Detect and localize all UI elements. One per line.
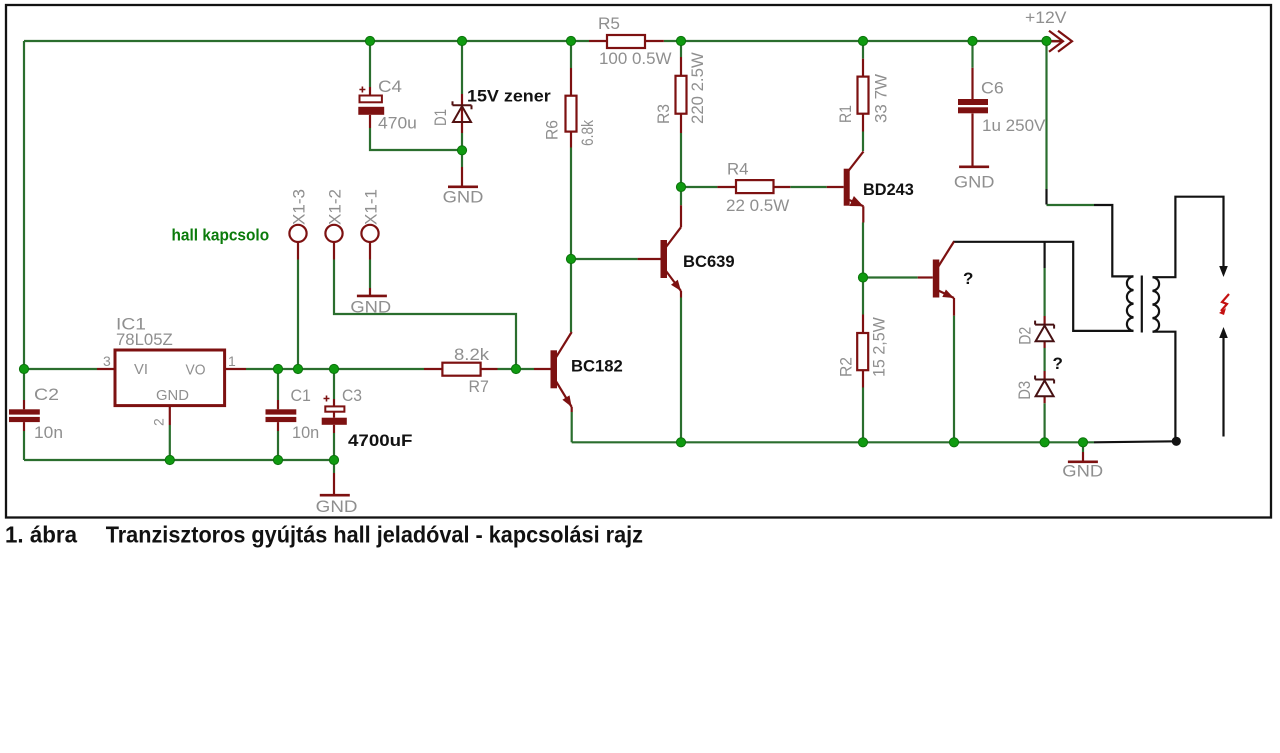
svg-text:GND: GND xyxy=(350,298,391,317)
wire lead C6 top xyxy=(971,68,973,99)
wire lead C4 top xyxy=(369,87,371,95)
wire lead R2 top xyxy=(862,315,864,334)
ground symbol (D1) xyxy=(448,186,478,189)
svg-text:R3: R3 xyxy=(654,104,673,124)
ground symbol (C6) xyxy=(959,166,989,169)
svg-text:X1-1: X1-1 xyxy=(362,189,381,225)
junction Q?/bottom rail xyxy=(949,438,958,447)
svg-text:R1: R1 xyxy=(836,105,855,123)
svg-text:C3: C3 xyxy=(342,386,362,405)
svg-text:BC182: BC182 xyxy=(571,357,623,376)
wire lead C4 bottom xyxy=(369,115,371,128)
border frame xyxy=(6,5,1271,518)
wire lead R5 right xyxy=(645,40,664,42)
wire lead C2 top xyxy=(23,400,25,409)
svg-text:6.8k: 6.8k xyxy=(578,120,597,146)
wire BC639 base node horizontal xyxy=(571,258,638,260)
wire lead C3 GND stub xyxy=(333,473,335,495)
wire lead C2 bottom xyxy=(23,422,25,431)
wire Q? collector to primary xyxy=(953,242,1134,331)
wire lead R1 bottom xyxy=(862,114,864,132)
wire R3 to R4 node xyxy=(680,133,682,187)
wire +12V top rail left segment xyxy=(24,40,589,42)
spark gap lower electrode arrow xyxy=(1219,327,1228,338)
wire black branch to D2 string xyxy=(1043,242,1045,268)
wire primary feed black segment xyxy=(1094,205,1134,276)
wire lead BC182 base xyxy=(534,368,551,370)
wire lead D3 bottom xyxy=(1043,396,1045,403)
transformer T1 core xyxy=(1141,276,1143,333)
svg-text:470u: 470u xyxy=(378,114,417,133)
svg-text:GND: GND xyxy=(156,387,189,404)
wire lead C6 bottom to GND xyxy=(971,114,973,167)
svg-text:220 2.5W: 220 2.5W xyxy=(688,52,707,124)
zener diode D2 xyxy=(1035,321,1054,342)
wire lead C3 bottom xyxy=(333,425,335,433)
transistor Q1 BC182 base bar xyxy=(551,350,558,388)
wire rail to R1 xyxy=(862,41,864,59)
wire C1 branch lower xyxy=(277,431,279,460)
wire node 5V: junction to IC1 VI xyxy=(24,368,97,370)
svg-text:?: ? xyxy=(963,269,973,288)
svg-text:BD243: BD243 xyxy=(863,180,914,199)
svg-text:Tranzisztoros gyújtás hall jel: Tranzisztoros gyújtás hall jeladóval - k… xyxy=(106,522,643,548)
zener diode D1 xyxy=(453,101,472,122)
wire bottom-left ground rail xyxy=(24,459,334,461)
wire R6 to BC639 base node xyxy=(570,148,572,260)
wire R4 node to BC639 collector xyxy=(680,187,682,205)
svg-text:R5: R5 xyxy=(598,14,620,33)
wire X1-1 to GND xyxy=(369,260,371,289)
wire BD243 emitter node xyxy=(862,223,864,278)
wire X1-3 to main node xyxy=(297,260,299,370)
junction D3/bottom rail xyxy=(1040,438,1049,447)
svg-text:VI: VI xyxy=(134,361,148,378)
wire lead R4 left xyxy=(717,186,736,188)
wire BD243 emitter node to Q? base xyxy=(863,276,918,278)
transistor Q2 BC639 emitter lead with arrow xyxy=(666,271,681,291)
junction BD243 emitter/R2/Q? base xyxy=(858,273,867,282)
junction +12V takeoff xyxy=(1042,36,1051,45)
wire lead D3 top xyxy=(1043,371,1045,380)
junction C3/5V xyxy=(329,364,338,373)
wire rail to R6 xyxy=(570,41,572,68)
svg-text:BC639: BC639 xyxy=(683,252,735,271)
wire bottom ground rail xyxy=(572,441,1094,443)
resistor R1 body xyxy=(858,77,869,114)
capacitor C3 plus sign xyxy=(324,396,330,402)
spark symbol (red) xyxy=(1221,294,1229,311)
spark gap upper electrode arrow xyxy=(1219,266,1228,277)
wire lead D2 top xyxy=(1043,316,1045,325)
capacitor C2 plates xyxy=(9,409,40,414)
wire lead BD243 base xyxy=(827,186,844,188)
junction BC639/bottom rail xyxy=(676,438,685,447)
wire R4 to BD243 base xyxy=(790,186,826,188)
svg-text:VO: VO xyxy=(186,362,206,379)
wire C3 branch upper xyxy=(333,369,335,399)
svg-text:2: 2 xyxy=(151,418,167,426)
junction D1/rail xyxy=(457,36,466,45)
transistor Q3 BD243 collector lead xyxy=(849,151,864,170)
wire lead right GND stub xyxy=(1082,452,1084,462)
transistor Q1 BC182 collector lead xyxy=(556,332,572,357)
wire left rail below C2 xyxy=(23,431,25,460)
wire R1 to BD243 collector xyxy=(862,132,864,152)
capacitor C6 plates xyxy=(958,99,988,105)
wire lead X1-2 pin xyxy=(333,242,335,259)
junction R7/X1-2/base xyxy=(511,364,520,373)
svg-text:22 0.5W: 22 0.5W xyxy=(726,196,789,215)
resistor R5 body xyxy=(607,35,645,48)
svg-text:4700uF: 4700uF xyxy=(348,431,413,450)
wire IC1 VO to R7 xyxy=(246,368,424,370)
svg-text:R7: R7 xyxy=(469,377,489,396)
capacitor C4 (electrolytic) xyxy=(360,96,382,103)
svg-text:15V zener: 15V zener xyxy=(467,87,551,106)
wire lead IC1 pin2 xyxy=(169,406,171,425)
wire Q? emitter to bottom rail xyxy=(953,316,955,443)
svg-text:78L05Z: 78L05Z xyxy=(116,330,173,349)
wire +12V to transformer primary vertical xyxy=(1045,41,1047,189)
svg-text:100 0.5W: 100 0.5W xyxy=(599,49,672,68)
wire lead R3 top xyxy=(680,57,682,76)
svg-text:D2: D2 xyxy=(1016,327,1035,345)
wire lead BD243 emitter xyxy=(862,206,864,222)
svg-text:GND: GND xyxy=(443,187,484,206)
wire IC1 pin2 lower xyxy=(169,425,171,460)
resistor R2 body xyxy=(857,333,868,370)
transistor Q3 BD243 emitter lead with arrow xyxy=(849,200,864,207)
wire lead R1 top xyxy=(862,59,864,77)
junction C1/gnd xyxy=(273,455,282,464)
wire C1 branch upper xyxy=(277,369,279,400)
svg-text:10n: 10n xyxy=(34,423,63,442)
svg-text:D3: D3 xyxy=(1015,381,1034,400)
wire bottom rail black segment xyxy=(1094,441,1176,442)
svg-text:?: ? xyxy=(1053,354,1063,373)
transistor Q1 BC182 emitter lead with arrow xyxy=(556,381,572,407)
transformer T1 primary winding xyxy=(1127,276,1134,331)
wire lead X1-1 pin xyxy=(369,242,371,259)
+12V supply arrow xyxy=(1049,31,1072,52)
svg-text:hall kapcsolo: hall kapcsolo xyxy=(172,225,270,244)
connector pad X1-1 xyxy=(361,225,378,242)
wire spark gap lower electrode xyxy=(1222,334,1224,437)
junction X1-3/5V xyxy=(293,364,302,373)
wire lead C3 top xyxy=(333,399,335,406)
svg-text:+12V: +12V xyxy=(1025,8,1067,27)
wire node to R2 xyxy=(862,278,864,315)
transistor Q2 BC639 collector lead xyxy=(666,227,681,247)
wire lead IC1 pin1 xyxy=(225,368,246,370)
wire lead X1-1 GND stub xyxy=(369,288,371,296)
junction GND/bottom rail xyxy=(1078,438,1087,447)
junction R1/rail xyxy=(858,36,867,45)
junction R6/BC639 base xyxy=(566,254,575,263)
junction R5-right/R3 xyxy=(676,36,685,45)
svg-text:C2: C2 xyxy=(34,385,59,404)
resistor R4 body xyxy=(736,180,774,193)
junction C3/gnd xyxy=(329,455,338,464)
wire lead R3 bottom xyxy=(680,114,682,133)
wire left vertical rail xyxy=(23,41,25,400)
wire D3 to bottom rail xyxy=(1043,403,1045,442)
wire lead R5 left xyxy=(589,40,607,42)
resistor R3 body xyxy=(676,76,687,114)
wire D2 top xyxy=(1043,268,1045,316)
junction R2/bottom rail xyxy=(858,438,867,447)
svg-text:GND: GND xyxy=(954,172,995,191)
wire lead Q? emitter xyxy=(953,298,955,316)
junction C1/5V xyxy=(273,364,282,373)
wire lead R6 bottom xyxy=(570,132,572,148)
svg-text:R2: R2 xyxy=(837,357,856,377)
svg-text:X1-3: X1-3 xyxy=(290,189,309,225)
transformer T1 secondary winding xyxy=(1153,277,1160,332)
transistor Q2 BC639 base bar xyxy=(661,240,668,278)
junction R5-left xyxy=(566,36,575,45)
wire lead BC182 emitter stub xyxy=(571,407,573,412)
wire D2-D3 link xyxy=(1043,348,1045,371)
capacitor C3 (electrolytic) xyxy=(325,406,344,411)
wire BC639 emitter to bottom rail xyxy=(680,298,682,443)
wire rail to C6 xyxy=(971,41,973,68)
ground symbol (X1-1) xyxy=(357,295,387,298)
connector pad X1-2 xyxy=(325,225,342,242)
transistor Q4 ? base bar xyxy=(933,260,940,298)
zener diode D3 xyxy=(1035,376,1054,397)
wire primary feed horizontal xyxy=(1047,204,1095,206)
transistor Q4 ? emitter lead with arrow xyxy=(938,291,954,299)
wire lead R6 top xyxy=(570,68,572,96)
junction IC1 pin2/gnd xyxy=(165,455,174,464)
wire lead X1-3 pin xyxy=(297,242,299,259)
wire D1 anode to GND node xyxy=(461,133,463,167)
resistor R7 body xyxy=(442,363,480,376)
svg-text:1u 250V: 1u 250V xyxy=(982,116,1046,135)
svg-text:GND: GND xyxy=(316,497,358,516)
op-amp/regulator IC1 78L05Z body xyxy=(115,350,225,406)
transistor Q4 ? collector lead xyxy=(938,242,954,267)
svg-text:8.2k: 8.2k xyxy=(454,345,490,364)
junction C6/rail xyxy=(968,36,977,45)
junction C4/rail xyxy=(365,36,374,45)
wire lead C1 top xyxy=(277,400,279,409)
wire lead Q? base xyxy=(918,276,933,278)
junction secondary/bottom rail (black) xyxy=(1172,437,1181,446)
transistor Q3 BD243 base bar xyxy=(844,169,850,206)
wire lead C3 mid xyxy=(333,412,335,418)
junction R3/R4 xyxy=(676,182,685,191)
wire R7 to BC182 base xyxy=(498,368,535,370)
wire X1-2 elbow to R7 node xyxy=(334,260,516,370)
connector pad X1-3 xyxy=(289,225,306,242)
wire rail to R3 xyxy=(680,41,682,57)
wire lead R7 right xyxy=(481,368,498,370)
wire C4 bottom elbow to D1 xyxy=(370,128,461,150)
wire lead D1 to GND xyxy=(461,167,463,187)
wire lead D1 vertical xyxy=(461,94,463,133)
wire R4 node horizontal xyxy=(681,186,717,188)
svg-text:R6: R6 xyxy=(543,120,562,140)
wire +12V top rail right segment xyxy=(664,40,1063,42)
wire lead BC639 emitter xyxy=(680,291,682,298)
wire D1 cathode from rail xyxy=(461,41,463,94)
wire C3 to GND stub xyxy=(333,460,335,473)
wire lead IC1 pin3 xyxy=(97,368,115,370)
svg-text:C4: C4 xyxy=(378,77,402,96)
ground symbol (bottom rail) xyxy=(1068,460,1098,463)
wire R2 to bottom rail xyxy=(862,388,864,443)
wire black overdraw at +12V elbow xyxy=(1045,189,1047,205)
wire lead R4 right xyxy=(774,186,791,188)
svg-text:D1: D1 xyxy=(431,109,450,126)
svg-text:C6: C6 xyxy=(981,79,1004,98)
wire lead BC639 collector xyxy=(680,205,682,227)
wire lead D2 bottom xyxy=(1043,341,1045,348)
wire lead R2 bottom xyxy=(862,370,864,387)
wire node to BC182 collector xyxy=(570,259,572,332)
svg-text:1: 1 xyxy=(228,353,236,369)
junction left rail/5V xyxy=(19,364,28,373)
ground symbol (C3) xyxy=(320,494,350,497)
svg-text:15 2,5W: 15 2,5W xyxy=(870,317,889,377)
junction C4/D1 xyxy=(457,146,466,155)
svg-text:C1: C1 xyxy=(291,386,311,405)
capacitor C4 plus sign xyxy=(359,87,365,93)
svg-text:X1-2: X1-2 xyxy=(326,189,345,225)
wire BC182 emitter down xyxy=(571,412,573,442)
resistor R6 body xyxy=(566,96,577,132)
wire secondary bottom xyxy=(1153,332,1176,441)
svg-text:3: 3 xyxy=(103,353,111,369)
wire lead C1 bottom xyxy=(277,422,279,431)
svg-text:10n: 10n xyxy=(292,423,319,442)
svg-text:1. ábra: 1. ábra xyxy=(5,522,77,548)
svg-text:33 7W: 33 7W xyxy=(872,74,891,123)
svg-text:GND: GND xyxy=(1062,461,1103,480)
svg-text:R4: R4 xyxy=(727,160,749,179)
wire lead R7 left xyxy=(424,368,442,370)
capacitor C1 plates xyxy=(266,409,297,414)
wire C4 top from rail xyxy=(369,41,371,87)
wire secondary top xyxy=(1153,197,1224,278)
wire lead BC639 base xyxy=(638,258,661,260)
wire GND stub right rail xyxy=(1082,442,1084,452)
wire C3 branch lower xyxy=(333,433,335,460)
